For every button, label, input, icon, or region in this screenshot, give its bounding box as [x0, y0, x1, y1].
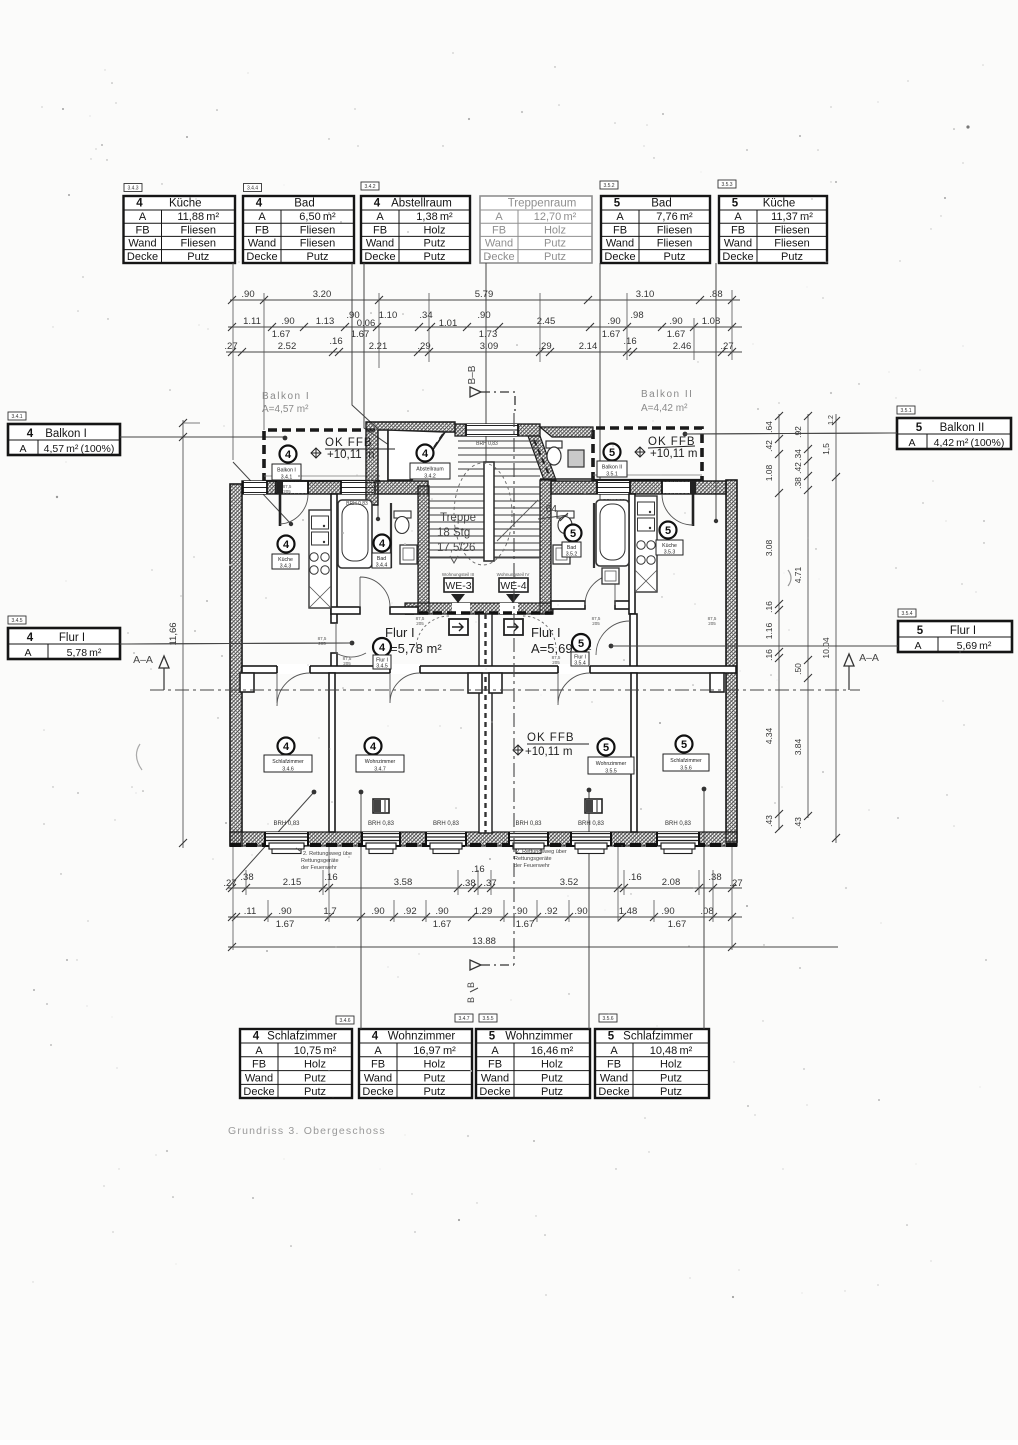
svg-text:4: 4	[379, 642, 386, 654]
leader overlay: 5 Balkon II	[685, 433, 897, 434]
label: Abstellraum	[417, 445, 434, 462]
label: Bad 5	[565, 525, 582, 542]
stair treads lower	[429, 486, 540, 488]
svg-text:Wand: Wand	[128, 238, 156, 250]
svg-text:Putz: Putz	[304, 1086, 326, 1098]
wall: Schlaf4/Wohn4 divider	[329, 673, 335, 832]
wall: north band right (Bad5/Kueche5)	[551, 481, 726, 494]
svg-text:1.73: 1.73	[479, 329, 498, 340]
svg-text:205: 205	[343, 661, 351, 666]
svg-text:FB: FB	[371, 1059, 385, 1071]
svg-text:205: 205	[708, 621, 716, 626]
svg-text:A: A	[734, 211, 742, 223]
svg-text:Wohnzimmer: Wohnzimmer	[505, 1031, 573, 1043]
svg-text:205: 205	[416, 621, 424, 626]
svg-text:Putz: Putz	[781, 251, 803, 263]
svg-text:3.4.2: 3.4.2	[424, 474, 436, 480]
svg-text:Putz: Putz	[423, 1086, 445, 1098]
svg-text:4: 4	[27, 428, 34, 440]
svg-text:Bad: Bad	[567, 545, 576, 551]
svg-text:.64: .64	[543, 504, 557, 515]
note: Rettungsweg left	[296, 848, 352, 871]
svg-text:10,75 m²: 10,75 m²	[294, 1045, 337, 1057]
svg-text:1.7: 1.7	[323, 906, 336, 917]
svg-text:FB: FB	[492, 224, 506, 236]
wall: Flur5 east / Schlaf5 divider upper	[630, 614, 637, 667]
door niche Schlafzimmer5 (right wall)	[710, 673, 724, 692]
svg-text:Balkon I: Balkon I	[277, 468, 296, 474]
svg-text:3.4.4: 3.4.4	[376, 563, 388, 569]
svg-text:BRH 0,83: BRH 0,83	[515, 821, 542, 827]
door swing arc Kueche4	[280, 494, 308, 524]
svg-text:16,46 m²: 16,46 m²	[531, 1045, 574, 1057]
svg-text:Putz: Putz	[423, 238, 445, 250]
svg-text:11,66: 11,66	[168, 622, 179, 645]
section line A-A	[150, 689, 860, 691]
svg-text:A=4,42 m²: A=4,42 m²	[641, 403, 688, 414]
door leaf Kueche5	[690, 481, 696, 494]
svg-text:.92: .92	[403, 906, 416, 917]
svg-text:Fliesen: Fliesen	[300, 224, 335, 236]
WC floor line	[540, 478, 593, 480]
bathtub Bad5	[596, 500, 629, 566]
svg-text:2.15: 2.15	[283, 877, 302, 888]
svg-text:205: 205	[552, 660, 560, 665]
svg-text:Küche: Küche	[763, 198, 796, 210]
svg-text:Holz: Holz	[423, 1059, 445, 1071]
svg-text:3.5.2: 3.5.2	[566, 552, 578, 558]
svg-text:4: 4	[256, 198, 263, 210]
svg-text:FB: FB	[613, 224, 627, 236]
svg-text:12,70 m²: 12,70 m²	[534, 211, 577, 223]
extension lines top	[232, 263, 234, 460]
leader overlay: 5 Flur I	[611, 645, 898, 647]
svg-text:Abstellraum: Abstellraum	[391, 198, 452, 210]
svg-text:1.67: 1.67	[351, 329, 370, 340]
window at 571	[571, 832, 611, 845]
svg-text:17,5/26: 17,5/26	[437, 542, 475, 554]
svg-text:FB: FB	[252, 1059, 266, 1071]
shaft wall Bad4	[390, 503, 392, 568]
svg-text:.16: .16	[764, 601, 774, 613]
svg-text:Schlafzimmer: Schlafzimmer	[267, 1031, 337, 1043]
svg-text:2.08: 2.08	[662, 877, 681, 888]
dimension chain top row 1	[230, 299, 740, 301]
svg-text:3.5.6: 3.5.6	[680, 766, 692, 772]
svg-text:5: 5	[665, 525, 671, 537]
svg-text:A: A	[139, 211, 147, 223]
svg-text:Wand: Wand	[248, 238, 276, 250]
leader: 4 Abstellraum table to plan	[364, 263, 408, 458]
svg-text:1.67: 1.67	[667, 329, 686, 340]
svg-text:5: 5	[916, 422, 923, 434]
svg-text:der Feuerwehr: der Feuerwehr	[514, 863, 550, 869]
label: Balkon I	[280, 446, 297, 463]
svg-text:Decke: Decke	[604, 251, 635, 263]
svg-text:10,48 m²: 10,48 m²	[650, 1045, 693, 1057]
leader: Treppenraum table to stairwell	[485, 263, 487, 478]
svg-text:1.2: 1.2	[828, 415, 835, 425]
svg-text:Wand: Wand	[366, 238, 394, 250]
note: Rettungsweg right	[514, 849, 567, 869]
svg-text:3.4.4: 3.4.4	[247, 186, 258, 192]
svg-text:.16: .16	[764, 649, 774, 661]
window: Bad5 north	[597, 481, 630, 494]
label: Schlafzimmer 4	[278, 738, 295, 755]
table: 5 Kueche	[719, 196, 827, 263]
table: 5 Balkon II	[897, 418, 1011, 449]
washer Bad5	[602, 568, 619, 584]
svg-text:Decke: Decke	[364, 251, 395, 263]
svg-text:1,5: 1,5	[821, 443, 831, 455]
section marker A-A right	[844, 652, 879, 690]
svg-text:3.5.5: 3.5.5	[605, 769, 617, 775]
wall: Bad5 south	[551, 601, 585, 609]
door swing arc Kueche5	[662, 494, 693, 525]
svg-text:13.88: 13.88	[472, 936, 496, 947]
svg-text:0.06: 0.06	[357, 318, 376, 329]
svg-text:.98: .98	[630, 310, 643, 321]
svg-text:Holz: Holz	[304, 1059, 326, 1071]
svg-text:Fliesen: Fliesen	[300, 238, 335, 250]
door leaf Kueche4	[277, 481, 283, 494]
svg-text:.38: .38	[793, 477, 803, 489]
heater symbol Wohn4	[373, 799, 389, 813]
wall: corridor south (room band top)	[242, 666, 736, 673]
table: 4 Bad	[243, 196, 354, 263]
svg-text:Schlafzimmer: Schlafzimmer	[670, 758, 702, 764]
svg-text:.27: .27	[729, 878, 742, 889]
stairwell north wall with window	[455, 424, 540, 436]
svg-text:Putz: Putz	[660, 1072, 682, 1084]
chip 3.5.1	[897, 406, 915, 414]
svg-text:.90: .90	[514, 906, 527, 917]
svg-text:.08: .08	[700, 906, 713, 917]
Abstellraum interior	[388, 430, 445, 480]
svg-text:Bad: Bad	[651, 198, 671, 210]
svg-text:3.5.3: 3.5.3	[664, 550, 676, 556]
svg-text:Balkon II: Balkon II	[940, 422, 985, 434]
table: 4 Kueche	[124, 196, 236, 263]
svg-text:5: 5	[681, 739, 687, 751]
svg-text:A: A	[376, 211, 384, 223]
svg-text:OK FFB: OK FFB	[527, 732, 575, 744]
svg-text:1.13: 1.13	[316, 316, 335, 327]
svg-text:3.5.1: 3.5.1	[606, 472, 618, 478]
leader: 5 Kueche table to plan	[715, 263, 717, 521]
svg-text:4: 4	[283, 741, 290, 753]
label: Kueche 4	[278, 536, 295, 553]
svg-text:BRH 0,83: BRH 0,83	[476, 441, 498, 447]
stairwell east chamfer wall	[528, 436, 556, 480]
svg-text:1.10: 1.10	[379, 310, 398, 321]
svg-text:4,57 m² (100%): 4,57 m² (100%)	[44, 443, 115, 455]
door opening: Kueche4 balcony door	[276, 482, 308, 493]
left vertical dimension 11,66	[168, 419, 200, 848]
svg-text:Decke: Decke	[127, 251, 158, 263]
svg-text:1.67: 1.67	[668, 919, 687, 930]
svg-text:Wand: Wand	[485, 238, 513, 250]
svg-text:5: 5	[609, 447, 615, 459]
svg-text:BRH 0,83: BRH 0,83	[665, 821, 692, 827]
svg-text:Decke: Decke	[598, 1086, 629, 1098]
svg-text:Abstellraum: Abstellraum	[416, 467, 443, 473]
chip 3.4.4	[244, 184, 262, 192]
svg-text:4: 4	[27, 632, 34, 644]
svg-text:4: 4	[370, 741, 377, 753]
door swing arc Bad4	[360, 577, 390, 607]
svg-text:A: A	[374, 1045, 382, 1057]
svg-text:5: 5	[917, 625, 924, 637]
svg-text:4: 4	[136, 198, 143, 210]
svg-text:B: B	[466, 982, 476, 988]
svg-text:A=4,57 m²: A=4,57 m²	[262, 404, 309, 415]
leader: 5 Bad table to plan	[599, 263, 601, 519]
svg-text:FB: FB	[373, 224, 387, 236]
svg-text:Putz: Putz	[423, 251, 445, 263]
svg-text:Putz: Putz	[663, 251, 685, 263]
svg-text:.11: .11	[244, 906, 257, 917]
svg-text:4: 4	[253, 1031, 260, 1043]
svg-text:.34: .34	[793, 449, 803, 461]
svg-text:3.5.4: 3.5.4	[901, 611, 912, 617]
svg-text:Fliesen: Fliesen	[774, 224, 809, 236]
svg-text:Küche: Küche	[278, 557, 293, 563]
door: Flur4 to Kueche4	[336, 623, 366, 657]
wall: bottom exterior	[230, 832, 737, 846]
svg-text:+10,11 m: +10,11 m	[327, 449, 374, 461]
wall: Kueche4/Bad4 divider + Flur west	[331, 494, 337, 623]
svg-text:5,78 m²: 5,78 m²	[67, 647, 102, 659]
svg-text:4: 4	[283, 539, 290, 551]
svg-text:5.79: 5.79	[475, 289, 494, 300]
label: Balkon II	[604, 444, 621, 461]
svg-text:Putz: Putz	[660, 1086, 682, 1098]
svg-text:A: A	[255, 1045, 263, 1057]
svg-text:.16: .16	[324, 872, 337, 883]
stairwell east wall	[540, 480, 551, 614]
svg-text:11,37 m²: 11,37 m²	[771, 211, 813, 223]
svg-text:4.71: 4.71	[793, 566, 803, 583]
heater symbol Wohn5	[585, 799, 602, 813]
svg-text:7,76 m²: 7,76 m²	[656, 211, 693, 223]
balcony Balkon II outline (dashed)	[593, 428, 702, 481]
svg-text:.90: .90	[669, 316, 682, 327]
svg-text:.90: .90	[241, 289, 254, 300]
svg-text:3.4.7: 3.4.7	[374, 767, 386, 773]
right vertical dimension line 3	[821, 414, 840, 843]
svg-text:.43: .43	[793, 817, 803, 829]
svg-text:11,88 m²: 11,88 m²	[177, 211, 219, 223]
svg-text:4,42 m² (100%): 4,42 m² (100%)	[934, 437, 1005, 449]
stairwell south wall	[405, 603, 553, 614]
svg-text:.38: .38	[462, 878, 475, 889]
svg-text:3.4.1: 3.4.1	[11, 414, 22, 420]
svg-text:5: 5	[578, 638, 584, 650]
door swing arc Schlafzimmer4	[277, 673, 310, 706]
svg-text:3.4.5: 3.4.5	[11, 618, 22, 624]
svg-text:3.4.7: 3.4.7	[458, 1016, 469, 1022]
door niche Schlafzimmer4	[240, 673, 254, 692]
svg-text:3.4.2: 3.4.2	[364, 184, 375, 190]
svg-text:.43: .43	[764, 815, 774, 827]
svg-text:1.67: 1.67	[433, 919, 452, 930]
svg-text:.90: .90	[435, 906, 448, 917]
svg-text:Schlafzimmer: Schlafzimmer	[623, 1031, 693, 1043]
svg-text:3.20: 3.20	[313, 289, 332, 300]
table: 4 Schlafzimmer	[240, 1029, 352, 1098]
svg-text:A: A	[495, 211, 503, 223]
svg-text:Fliesen: Fliesen	[774, 238, 809, 250]
svg-text:1.16: 1.16	[764, 622, 774, 639]
svg-text:Küche: Küche	[662, 543, 677, 549]
svg-text:2.46: 2.46	[673, 341, 692, 352]
svg-text:.16: .16	[623, 336, 636, 347]
window: Bad4 north	[341, 481, 375, 494]
table: 4 Balkon I	[8, 424, 120, 455]
svg-text:.50: .50	[793, 663, 803, 675]
window at 265	[265, 832, 308, 845]
svg-text:.16: .16	[329, 336, 342, 347]
leader: 4 Flur I table	[120, 643, 352, 644]
svg-text:.64: .64	[764, 421, 774, 433]
svg-text:BRH 0,83: BRH 0,83	[368, 821, 395, 827]
svg-text:.90: .90	[278, 906, 291, 917]
wall: north band left (Kueche4/Bad4)	[242, 481, 428, 494]
chip 3.5.5	[479, 1014, 497, 1022]
section marker B-B top	[467, 365, 515, 413]
svg-text:5: 5	[732, 198, 739, 210]
svg-text:A–A: A–A	[859, 652, 879, 664]
chip 3.5.4	[898, 609, 916, 617]
svg-text:Fliesen: Fliesen	[181, 238, 216, 250]
label: Wohnzimmer 4	[365, 738, 382, 755]
svg-text:3.08: 3.08	[764, 539, 774, 556]
right vertical dimension line 2	[793, 412, 812, 829]
svg-text:3.09: 3.09	[480, 341, 499, 352]
svg-text:+10,11 m: +10,11 m	[525, 746, 572, 758]
svg-text:.38: .38	[708, 872, 721, 883]
svg-text:2.14: 2.14	[579, 341, 598, 352]
svg-text:Balkon II: Balkon II	[641, 389, 693, 400]
toilet Bad4	[394, 511, 411, 518]
svg-text:FB: FB	[731, 224, 745, 236]
svg-text:1.67: 1.67	[516, 919, 535, 930]
svg-text:Putz: Putz	[187, 251, 209, 263]
svg-text:Treppenraum: Treppenraum	[508, 198, 577, 210]
dimension chain top row 2	[228, 326, 742, 328]
stair walking line (dashed ellipse)	[454, 463, 512, 565]
svg-text:Holz: Holz	[541, 1059, 563, 1071]
svg-text:A: A	[491, 1045, 499, 1057]
svg-text:205: 205	[283, 489, 291, 494]
svg-text:Schlafzimmer: Schlafzimmer	[272, 759, 304, 765]
svg-text:A: A	[19, 443, 26, 455]
svg-text:Wohnzimmer: Wohnzimmer	[365, 759, 396, 765]
wall: Wohn5/Schlaf5 divider	[631, 673, 637, 832]
svg-text:A–A: A–A	[133, 654, 153, 666]
door swing arc Wohnzimmer4	[390, 673, 420, 703]
svg-text:Balkon I: Balkon I	[45, 428, 87, 440]
dimension chain bottom row 3 (13.88)	[228, 946, 838, 948]
svg-text:.27: .27	[224, 341, 237, 352]
WC toilet	[546, 441, 562, 448]
WC room (top right)	[540, 427, 593, 437]
svg-text:.92: .92	[544, 906, 557, 917]
table: 5 Schlafzimmer	[595, 1029, 709, 1098]
svg-text:Fliesen: Fliesen	[657, 238, 692, 250]
door: Schlafzimmer5 from Flur5	[596, 621, 630, 655]
svg-text:Wohnungsteil IV: Wohnungsteil IV	[497, 572, 530, 577]
svg-text:Holz: Holz	[544, 224, 566, 236]
svg-text:5: 5	[608, 1031, 615, 1043]
svg-text:Fliesen: Fliesen	[181, 224, 216, 236]
svg-text:OK FFB: OK FFB	[325, 437, 373, 449]
wall: right exterior	[726, 480, 737, 842]
svg-text:3.4.6: 3.4.6	[339, 1018, 350, 1024]
chip 3.4.7	[455, 1014, 473, 1022]
svg-text:BRH 0,83: BRH 0,83	[578, 821, 605, 827]
chip 3.4.1	[8, 412, 26, 420]
svg-text:5: 5	[614, 198, 621, 210]
svg-text:4: 4	[374, 198, 381, 210]
right vertical dimension line 1	[764, 412, 783, 833]
svg-text:=5,78 m²: =5,78 m²	[390, 641, 442, 656]
svg-text:.92: .92	[793, 426, 803, 438]
svg-text:.16: .16	[628, 872, 641, 883]
leader: 4 Balkon I table	[120, 436, 285, 438]
svg-text:1,38 m²: 1,38 m²	[416, 211, 453, 223]
svg-text:der Feuerwehr: der Feuerwehr	[301, 865, 337, 871]
svg-text:2. Rettungsweg über: 2. Rettungsweg über	[516, 849, 567, 855]
Abstellraum door (dashed leaf on chamfer)	[414, 434, 443, 477]
svg-text:1.11: 1.11	[243, 316, 261, 327]
svg-text:Rettungsgeräte: Rettungsgeräte	[301, 858, 339, 864]
svg-text:Decke: Decke	[479, 1086, 510, 1098]
svg-text:Wand: Wand	[600, 1072, 628, 1084]
svg-text:WE-3: WE-3	[445, 580, 471, 592]
svg-text:Putz: Putz	[423, 1072, 445, 1084]
label: Wohnzimmer 5	[598, 739, 615, 756]
svg-text:2.21: 2.21	[369, 341, 388, 352]
svg-text:Decke: Decke	[362, 1086, 393, 1098]
stair landing edge	[429, 557, 540, 559]
svg-text:1.67: 1.67	[276, 919, 295, 930]
svg-text:18 Stg: 18 Stg	[437, 527, 470, 539]
svg-text:5,69 m²: 5,69 m²	[957, 640, 992, 652]
svg-text:4.34: 4.34	[764, 727, 774, 744]
svg-text:.42: .42	[764, 440, 774, 452]
svg-text:Wand: Wand	[724, 238, 752, 250]
svg-text:1.08: 1.08	[764, 464, 774, 481]
door niches near party wall	[468, 673, 482, 693]
shaft wall Bad5	[593, 503, 595, 568]
svg-text:2. Rettungsweg übe: 2. Rettungsweg übe	[303, 851, 352, 857]
svg-text:Flur I: Flur I	[531, 625, 561, 640]
wall: Bad5/Kueche5 divider	[629, 494, 635, 614]
stair up line	[497, 500, 538, 541]
svg-text:3.10: 3.10	[636, 289, 655, 300]
leader: 4 Schlafzimmer room	[226, 792, 314, 890]
wall: left exterior	[230, 484, 242, 846]
door opening: Kueche5 balcony door	[662, 482, 693, 493]
chip 3.4.6	[336, 1016, 354, 1024]
svg-text:5: 5	[570, 528, 576, 540]
svg-text:3.5.5: 3.5.5	[482, 1016, 493, 1022]
svg-text:.90: .90	[661, 906, 674, 917]
svg-text:3.5.2: 3.5.2	[603, 183, 614, 189]
kitchen counter Kueche5	[635, 496, 657, 592]
